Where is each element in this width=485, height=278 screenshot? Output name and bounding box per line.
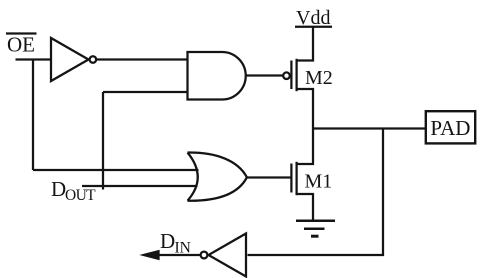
nand gate U2 <box>188 52 246 100</box>
M2 source to Vdd <box>297 27 313 61</box>
svg-text:OE: OE <box>7 33 35 57</box>
bubble of M2 gate <box>283 72 290 79</box>
M2 drain to node <box>297 89 313 129</box>
M2 channel bar <box>295 59 297 91</box>
wire U1 output to NAND input A <box>96 58 187 60</box>
wire U4 output to arrow <box>157 254 201 256</box>
svg-text:D: D <box>51 177 66 201</box>
M1 gate bar <box>290 164 292 193</box>
bubble of U1 <box>90 56 97 63</box>
nmos M1 <box>291 129 332 221</box>
node DOUT label <box>51 177 96 204</box>
M1 channel bar <box>295 162 297 195</box>
wire NAND output to M2 gate <box>246 74 283 76</box>
node DIN label <box>160 229 191 257</box>
M2 gate bar <box>290 61 292 90</box>
M1 drain to node <box>297 129 313 165</box>
wire output node to PAD <box>313 127 426 129</box>
M1 source to ground <box>297 194 313 220</box>
svg-text:M1: M1 <box>305 171 333 193</box>
wire OE-bar to OR input A <box>33 169 199 171</box>
svg-text:D: D <box>160 229 175 253</box>
power Vdd <box>295 7 332 29</box>
arrowhead <box>144 251 159 259</box>
wire OE branch down <box>32 60 34 171</box>
inverter U1 <box>51 38 89 81</box>
pad box <box>426 111 475 143</box>
svg-text:PAD: PAD <box>430 116 470 140</box>
wire DOUT to OR input B <box>82 185 198 187</box>
pmos M2 <box>283 27 333 129</box>
node OE-bar label <box>7 33 35 57</box>
or gate U3 <box>188 152 247 200</box>
wire OE to inverter input <box>16 58 52 60</box>
wire node to DIN inverter <box>248 129 384 256</box>
wire NAND input B horizontal <box>103 91 187 93</box>
overline of OE <box>6 32 37 34</box>
wire OR output to M1 gate <box>247 176 291 178</box>
svg-text:OUT: OUT <box>65 187 96 204</box>
svg-text:IN: IN <box>175 240 191 257</box>
bubble of U4 <box>201 252 208 259</box>
svg-text:M2: M2 <box>305 67 333 89</box>
inverter U4 <box>209 234 247 277</box>
wire NAND input B vertical to DOUT line <box>102 92 104 190</box>
ground <box>296 221 335 237</box>
